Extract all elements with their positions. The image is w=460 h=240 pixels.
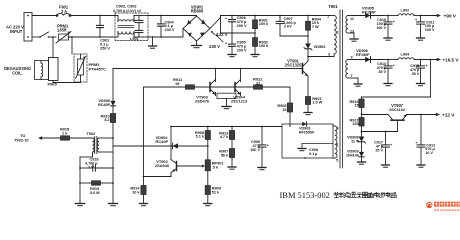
svg-text:T902: T902: [87, 131, 97, 136]
svg-text:5.6 M: 5.6 M: [90, 190, 99, 195]
svg-text:RF150P: RF150P: [362, 11, 376, 15]
svg-text:RC40P: RC40P: [98, 103, 111, 107]
resistor R907: [229, 149, 234, 158]
caption chinese text: [334, 192, 339, 194]
ground T902 left: [76, 203, 85, 205]
svg-text:230 V: 230 V: [209, 44, 220, 49]
node box bottom: [304, 157, 306, 159]
svg-text:35 V: 35 V: [412, 72, 420, 76]
ground R909: [204, 203, 212, 205]
svg-text:L902: L902: [401, 8, 411, 13]
wire switch to PRM1: [49, 36, 57, 38]
svg-text:16 V: 16 V: [425, 151, 433, 155]
resistor R908: [207, 126, 209, 128]
svg-text:IBM 5153-002: IBM 5153-002: [280, 190, 330, 200]
svg-text:+: +: [415, 18, 417, 22]
capacitor C905: [231, 33, 233, 44]
svg-text:11: 11: [350, 17, 354, 21]
wire base line VT907: [361, 131, 363, 133]
resistor R917: [361, 114, 363, 118]
capacitor C917: [385, 131, 387, 133]
svg-text:+: +: [267, 143, 269, 147]
svg-text:+: +: [393, 64, 395, 68]
svg-text:13: 13: [350, 30, 354, 34]
T902 core: [94, 137, 96, 154]
transistor VT902: [176, 162, 178, 171]
ground C913: [384, 83, 392, 85]
svg-text:250 V: 250 V: [100, 46, 110, 51]
capacitor C903: [138, 26, 140, 30]
svg-text:2SC1325: 2SC1325: [285, 63, 302, 68]
zener VD902: [307, 36, 309, 57]
ground C905: [231, 51, 233, 55]
wire VT902 emitter: [170, 173, 172, 177]
svg-text:0.1 µ: 0.1 µ: [309, 152, 317, 156]
fuse F901: [57, 14, 70, 16]
transistor VT903: [209, 83, 211, 92]
svg-text:+: +: [415, 141, 417, 145]
T901 secondary winding 9-7: [346, 60, 348, 79]
ground pin7: [354, 83, 362, 85]
svg-text:COIL.: COIL.: [12, 70, 23, 75]
capacitor C901: [99, 15, 101, 17]
ground C910: [384, 37, 392, 39]
ground C915: [417, 83, 425, 85]
capacitor C904: [160, 15, 162, 17]
wire filter out top: [148, 15, 197, 17]
svg-text:VD902: VD902: [314, 44, 327, 49]
resistor R910: [112, 109, 114, 114]
T901 primary winding: [331, 15, 335, 17]
output +16.5V: [420, 59, 439, 61]
svg-text:RB806: RB806: [191, 9, 204, 14]
svg-text:2 kV: 2 kV: [284, 24, 292, 29]
svg-text:+90 V: +90 V: [444, 14, 457, 20]
wire fuse to filter: [70, 15, 115, 17]
inductor L904: [384, 59, 398, 61]
capacitor C907: [279, 15, 281, 17]
svg-text:230 V: 230 V: [165, 27, 175, 32]
wire control rail: [171, 126, 282, 128]
resistor R913: [231, 126, 233, 128]
arrow to T902: [38, 136, 42, 139]
svg-text:L901: L901: [130, 36, 140, 41]
svg-text:135R: 135R: [57, 28, 67, 33]
diode VD904: [207, 145, 209, 147]
svg-text:100 V: 100 V: [425, 28, 435, 32]
svg-text:100 k: 100 k: [259, 21, 269, 26]
ground R903: [304, 112, 312, 114]
transistor VT901: [302, 64, 304, 74]
wire AC neutral to switch: [32, 36, 40, 38]
svg-text:5: 5: [336, 159, 338, 163]
T901 secondary winding 11-13: [346, 16, 348, 34]
wire VT902 collector: [170, 127, 172, 160]
ground C917: [382, 164, 390, 166]
resistor R901: [254, 15, 256, 17]
wire T902 right bottom: [99, 151, 113, 153]
zener VD908: [361, 132, 363, 148]
thermistor PRM1: [59, 34, 69, 40]
T901 core: [339, 10, 341, 168]
wire emitters join: [215, 93, 217, 96]
svg-text:11 V: 11 V: [351, 138, 359, 143]
svg-text:5 k: 5 k: [213, 165, 219, 170]
svg-text:35 V: 35 V: [378, 70, 386, 74]
wire bridge out: [210, 18, 221, 29]
wire filter out bottom: [148, 36, 183, 38]
wire 16.5 feed down: [430, 59, 432, 61]
svg-text:RC40P: RC40P: [156, 139, 169, 144]
ground R902: [254, 51, 256, 55]
svg-text:RF150DF: RF150DF: [299, 131, 315, 135]
posistor P905: [49, 58, 59, 81]
capacitor C918: [79, 167, 81, 169]
svg-text:200 V: 200 V: [237, 47, 247, 52]
wire left column: [143, 87, 145, 186]
ground bridge: [196, 41, 198, 46]
svg-text:3: 3: [328, 53, 330, 57]
ground pin13: [350, 38, 358, 40]
bridge VD901 diamond: [183, 16, 210, 41]
wire T902 right top: [99, 137, 113, 139]
node bridge plus: [231, 15, 233, 17]
capacitor C908: [302, 143, 333, 145]
svg-text:+12 V: +12 V: [442, 113, 455, 119]
svg-text:200 V: 200 V: [237, 23, 247, 28]
svg-text:2SC1162: 2SC1162: [389, 107, 406, 112]
svg-text:56 k: 56 k: [221, 153, 229, 158]
ground R914: [140, 203, 148, 205]
wire VT901 collector: [307, 57, 309, 62]
resistor R912: [254, 85, 263, 89]
wire AC live top: [32, 15, 57, 17]
svg-text:51 k: 51 k: [212, 190, 220, 195]
ground T902 right: [109, 203, 118, 205]
wire PRM1 to filter: [68, 36, 115, 38]
connector P901 AC input: [24, 13, 32, 42]
wire VT902 base: [177, 165, 204, 167]
wire to primary bottom: [308, 56, 331, 58]
wire emitter to out: [407, 114, 437, 116]
svg-text:1N4148: 1N4148: [346, 154, 359, 158]
wire degauss bottom: [52, 81, 54, 83]
T902 secondary: [97, 138, 99, 152]
pot RP901: [207, 158, 209, 160]
capacitor C906: [231, 16, 233, 20]
thermistor PRM2: [80, 54, 82, 59]
wire T902 left bottom: [92, 152, 94, 157]
svg-text:+16.5 V: +16.5 V: [443, 58, 460, 63]
svg-text:2SD476: 2SD476: [195, 99, 210, 104]
svg-text:2: 2: [337, 31, 339, 35]
svg-text:+: +: [393, 20, 395, 24]
ground C912: [417, 164, 425, 166]
svg-text:25 V: 25 V: [375, 148, 383, 152]
resistor R916: [361, 97, 363, 99]
svg-text:160 V: 160 V: [250, 147, 260, 152]
wire drive tap: [112, 69, 114, 99]
transistor VT904: [234, 83, 236, 92]
thermistor PRM2 dashed box: [74, 54, 87, 82]
capacitor C913: [387, 59, 389, 61]
svg-text:8.2: 8.2: [104, 117, 110, 122]
svg-text:7: 7: [351, 74, 353, 78]
svg-text:10 k: 10 k: [132, 190, 140, 195]
ground VD909: [358, 161, 366, 163]
wire collector line: [361, 113, 363, 115]
svg-text:PTH45TC: PTH45TC: [89, 67, 107, 72]
capacitor C909: [261, 126, 263, 128]
wire switch node to P905: [52, 36, 54, 38]
ground C909: [258, 167, 266, 169]
choke L901 bottom winding: [115, 36, 118, 38]
diode VD903: [302, 122, 306, 126]
svg-text:4.7 k: 4.7 k: [220, 134, 229, 139]
wire bridge AC left: [182, 29, 184, 38]
svg-text:2 kV: 2 kV: [88, 166, 96, 170]
wire base line: [144, 86, 291, 88]
svg-text:2SA940: 2SA940: [155, 163, 170, 168]
diode VD909: [361, 147, 363, 162]
svg-text:1.5 W: 1.5 W: [312, 100, 322, 105]
ground emitters: [222, 106, 231, 108]
resistor R904: [307, 15, 309, 17]
svg-text:2SC1213: 2SC1213: [231, 99, 248, 104]
capacitor C902: [138, 16, 140, 21]
capacitor C915: [420, 59, 422, 61]
filter dashed box: [115, 13, 148, 41]
svg-text:T902-10: T902-10: [14, 138, 29, 143]
svg-text:5.1 k: 5.1 k: [196, 134, 205, 139]
wire snubber bottom: [280, 35, 308, 37]
output +90V: [420, 15, 439, 17]
resistor R919: [79, 182, 81, 184]
svg-text:4,700 p (2 kV) ×2: 4,700 p (2 kV) ×2: [113, 9, 141, 13]
choke L901 core: [118, 24, 134, 26]
inductor L902: [384, 15, 398, 17]
svg-text:6: 6: [336, 143, 338, 147]
capacitor C910: [387, 15, 389, 17]
svg-text:+: +: [390, 143, 392, 147]
resistor R909: [205, 186, 210, 195]
transistor VT907: [391, 119, 404, 121]
degaussing coil: [35, 61, 49, 80]
resistor R905: [289, 87, 291, 103]
svg-text:100 V: 100 V: [376, 26, 386, 30]
svg-text:100 k: 100 k: [259, 43, 269, 48]
resistor R914: [141, 186, 146, 195]
resistor R915: [61, 136, 70, 140]
svg-text:C902, C903: C902, C903: [116, 3, 137, 8]
diode VD910: [112, 99, 114, 109]
ground filter: [152, 36, 154, 38]
resistor R911: [186, 85, 195, 89]
switch S901: [40, 32, 49, 37]
svg-text:L904: L904: [401, 52, 411, 57]
svg-text:130: 130: [352, 121, 358, 126]
resistor R903: [305, 97, 310, 105]
capacitor C912: [420, 114, 422, 116]
output +12V: [436, 113, 440, 116]
svg-text:9: 9: [351, 55, 353, 59]
wire PRM2 tap: [71, 36, 73, 38]
svg-text:RF150F: RF150F: [356, 53, 370, 57]
wire cap midpoint: [231, 32, 233, 34]
svg-text:3 A: 3 A: [61, 9, 67, 14]
box VD903: [282, 124, 333, 158]
diode VD905: [352, 15, 384, 17]
watermark elecfans logo: [426, 202, 432, 208]
capacitor C911: [420, 15, 422, 17]
ground C911: [417, 37, 425, 39]
svg-text:INPUT: INPUT: [10, 29, 23, 34]
T902 primary: [93, 138, 95, 152]
wire drive rail: [113, 68, 303, 70]
choke L901 top winding: [115, 15, 118, 17]
pot RP901 wiper arrow: [202, 165, 205, 168]
svg-text:+: +: [426, 64, 428, 68]
resistor R902: [254, 33, 256, 38]
T901 feedback winding: [335, 126, 337, 158]
diode VD906: [352, 59, 384, 61]
svg-text:1: 1: [327, 15, 329, 19]
svg-text:7 W: 7 W: [312, 24, 319, 29]
svg-text:T901: T901: [328, 4, 338, 9]
wire VT901 emitter: [307, 76, 309, 97]
svg-text:1 k: 1 k: [62, 131, 68, 136]
